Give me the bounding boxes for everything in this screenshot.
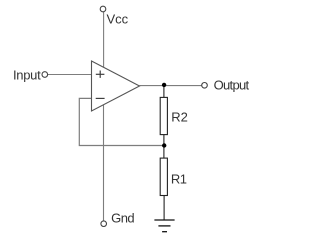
- svg-text:R1: R1: [171, 172, 187, 187]
- svg-text:R2: R2: [171, 110, 188, 125]
- svg-text:Vcc: Vcc: [107, 11, 129, 26]
- svg-text:Input: Input: [13, 67, 41, 82]
- svg-text:Output: Output: [214, 78, 250, 93]
- svg-text:Gnd: Gnd: [111, 211, 134, 226]
